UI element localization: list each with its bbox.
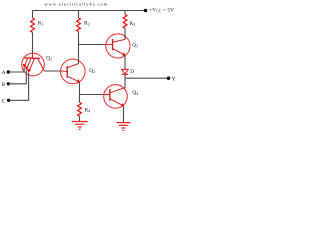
wire: Vcc top rail [33,10,146,12]
svg-text:www.electrically4u.com: www.electrically4u.com [45,1,109,6]
transistor Q2 (phase splitter) [61,59,86,84]
svg-text:D: D [130,69,134,75]
node Y terminal dot [167,76,171,80]
wire: Q3 collector up to R4 [124,28,126,39]
wire: input B [8,70,26,84]
wire: Q2 emitter node to Q4 base [80,94,105,96]
wire: Q2 emitter down to R3 [79,82,81,102]
ground (below Q4) [116,123,130,131]
wire: R3 to ground [79,116,81,121]
resistor R3 [78,102,82,116]
wire: Q3 emitter down to diode [124,56,126,70]
wire: R4 top lead [124,11,126,15]
svg-text:R2: R2 [84,21,90,27]
wire: Q1 collector to Q2 base [44,70,61,72]
wire: R1 bottom lead to Q1 base [32,32,34,53]
svg-text:+VCC = 5V: +VCC = 5V [149,8,174,14]
svg-text:C: C [2,98,6,104]
node Vcc terminal dot [144,9,148,13]
transistor Q4 [104,85,128,109]
wire: diode to Q4 collector [124,74,126,87]
resistor R4 [123,14,127,28]
diode D [122,69,129,74]
resistor R2 [77,18,81,32]
svg-text:R3: R3 [129,21,135,27]
resistor R1 [31,18,35,32]
svg-text:B: B [2,82,6,88]
wire: output Y [125,77,167,79]
transistor Q1 (multi-emitter input) [22,53,45,76]
transistor Q3 [106,34,130,58]
ground (below R3) [72,122,88,130]
wire: input C [9,73,29,101]
wire: R1 top lead [32,11,34,19]
svg-text:R1: R1 [38,21,44,27]
node A terminal dot [7,70,10,73]
node C terminal dot [7,99,10,102]
node B terminal dot [7,82,10,85]
wire: R2 top lead [78,11,80,18]
wire: Q2 collector up to R2 [78,32,80,64]
svg-text:A: A [2,70,6,76]
svg-text:R4: R4 [84,108,90,114]
wire: Q2 collector node to Q3 base [79,44,106,46]
wire: input A [8,68,24,72]
wire: Q4 emitter to ground [123,106,125,122]
svg-text:Y: Y [172,77,176,83]
